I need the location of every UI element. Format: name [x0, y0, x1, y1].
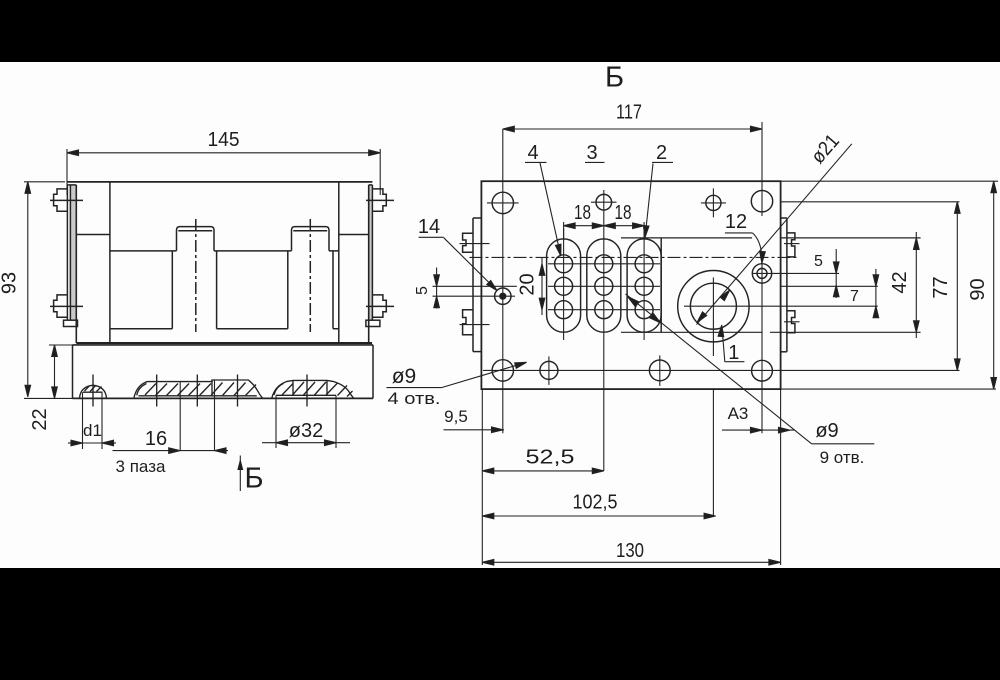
- bottom extension right edge: [780, 389, 782, 565]
- dimension 90: [991, 181, 997, 389]
- svg-text:18: 18: [615, 202, 632, 224]
- svg-text:42: 42: [889, 271, 911, 293]
- svg-text:20: 20: [517, 273, 539, 295]
- right tab upper: [784, 233, 800, 257]
- hole bottom-4: [752, 360, 773, 381]
- svg-text:4 отв.: 4 отв.: [388, 389, 441, 408]
- inner walls: [109, 182, 111, 343]
- svg-text:145: 145: [208, 129, 240, 151]
- leader 12: [725, 233, 765, 263]
- dimension 117: [503, 122, 762, 216]
- svg-text:9,5: 9,5: [444, 407, 468, 426]
- slot hump 2 (double): [134, 375, 263, 407]
- svg-text:22: 22: [29, 408, 51, 430]
- dimension 145: [67, 149, 380, 195]
- leader phi21: [695, 144, 852, 325]
- left edge strip: [473, 218, 481, 352]
- dimension 16: [113, 380, 229, 453]
- right extensions: [781, 181, 998, 389]
- big hole center extension: [712, 389, 714, 516]
- svg-text:2: 2: [656, 142, 667, 164]
- dimension 22: [49, 345, 73, 398]
- hole 12: [752, 262, 839, 433]
- cylinder cap 1: [177, 227, 215, 251]
- piston 1 walls: [172, 251, 216, 329]
- dimension 52,5: [482, 468, 604, 474]
- right edge strip: [781, 218, 787, 352]
- step lines: [76, 234, 110, 236]
- svg-text:9 отв.: 9 отв.: [820, 448, 865, 467]
- svg-text:5: 5: [814, 253, 823, 270]
- dimension 5 right: [833, 249, 839, 298]
- svg-text:3 паза: 3 паза: [116, 457, 166, 476]
- svg-text:Б: Б: [605, 62, 624, 94]
- dimension 130: [482, 560, 780, 566]
- bottom black bar: [0, 568, 1000, 680]
- big hole outer: [678, 271, 749, 342]
- svg-text:93: 93: [0, 272, 21, 294]
- dimension 7: [873, 269, 879, 318]
- valve column 2: [587, 190, 621, 471]
- dimension phi32: [262, 395, 350, 448]
- hole bottom-1: [492, 360, 513, 381]
- row center ticks: [548, 264, 660, 310]
- view arrow B: [237, 456, 243, 492]
- leader 3: [585, 161, 605, 163]
- cavity floor: [110, 328, 339, 330]
- dimension A3: [722, 427, 795, 433]
- svg-text:d1: d1: [83, 421, 102, 440]
- leader phi9 4 holes: [387, 360, 528, 388]
- dimension 77: [955, 202, 961, 371]
- svg-text:ø9: ø9: [815, 420, 838, 442]
- svg-text:3: 3: [586, 142, 597, 164]
- svg-text:А3: А3: [728, 404, 749, 423]
- svg-text:18: 18: [574, 202, 591, 224]
- piston 1 centerline: [195, 219, 197, 332]
- piston 2 walls: [288, 251, 333, 329]
- clamp bolt bottom-left: [50, 295, 83, 317]
- svg-text:52,5: 52,5: [526, 447, 575, 469]
- hole top-1: [487, 192, 519, 213]
- svg-text:117: 117: [616, 102, 642, 124]
- leader 2: [642, 162, 673, 237]
- svg-text:ø9: ø9: [392, 365, 417, 388]
- left tab upper: [460, 233, 490, 252]
- left tab lower: [460, 310, 490, 335]
- boss rectangle lines: [621, 238, 921, 332]
- cylinder cap 2: [292, 227, 330, 251]
- svg-text:14: 14: [418, 216, 440, 238]
- svg-text:ø32: ø32: [289, 420, 323, 442]
- row2 extension right: [781, 285, 878, 287]
- svg-text:5: 5: [414, 286, 431, 295]
- clamp bolt top-right: [366, 189, 394, 211]
- hole bottom-3: [649, 355, 670, 386]
- right tab lower: [784, 311, 800, 333]
- leader 4: [525, 162, 564, 256]
- clamp bolt bottom-right: [366, 295, 394, 317]
- hole top-2: [591, 194, 617, 210]
- svg-text:12: 12: [725, 211, 747, 233]
- dimension 20: [539, 258, 545, 315]
- dimension 102,5: [482, 513, 715, 519]
- base plate: [73, 345, 374, 399]
- left end plate: [64, 185, 78, 343]
- slot hump 1 (small): [80, 375, 107, 407]
- right end plate: [366, 185, 380, 343]
- bottom extension left edge: [481, 389, 483, 565]
- dimension 42: [914, 232, 920, 338]
- plate outline: [481, 181, 780, 389]
- valve column 3: [627, 228, 661, 340]
- svg-text:77: 77: [930, 276, 952, 298]
- svg-text:1: 1: [728, 342, 739, 364]
- top black bar: [0, 0, 1000, 62]
- svg-text:130: 130: [616, 540, 644, 562]
- leader phi9 9 holes: [626, 294, 875, 444]
- leader 1: [718, 325, 744, 362]
- piston 2 centerline: [309, 219, 311, 332]
- hole 14: [433, 129, 517, 433]
- main horizontal centerline (dash-dot): [470, 256, 799, 258]
- top hole row center line: [781, 201, 960, 203]
- svg-text:7: 7: [850, 288, 859, 305]
- svg-text:Б: Б: [244, 463, 263, 495]
- dimension 18 18: [564, 222, 645, 240]
- dimension 9,5: [444, 427, 505, 433]
- cavity top line: [110, 250, 339, 252]
- valve column 1: [547, 228, 581, 340]
- body top edge: [68, 181, 373, 183]
- dimension d1: [68, 392, 116, 449]
- body bottom edge: [76, 342, 372, 344]
- hole bottom-2: [540, 356, 558, 385]
- dimension 5 hole14: [434, 268, 440, 309]
- dimension 93: [24, 182, 73, 399]
- clamp bolt top-left: [50, 189, 83, 211]
- slot hump 3: [272, 375, 354, 407]
- big hole inner phi21: [690, 283, 736, 329]
- hole top-3: [701, 188, 726, 217]
- big hole centerlines: [684, 278, 878, 357]
- svg-text:90: 90: [967, 278, 989, 300]
- svg-text:4: 4: [527, 142, 538, 164]
- leader 14: [419, 237, 499, 292]
- svg-text:102,5: 102,5: [573, 492, 618, 514]
- svg-text:16: 16: [145, 428, 167, 450]
- hole top-4: [751, 191, 772, 212]
- bottom hole row line: [483, 369, 960, 371]
